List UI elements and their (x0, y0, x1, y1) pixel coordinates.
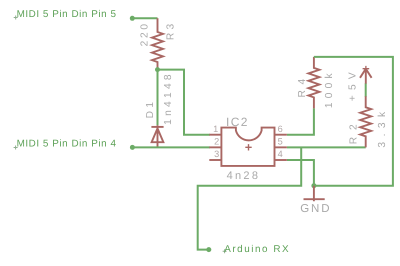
IC2 pin 2 stub (209, 146, 221, 148)
svg-text:4n28: 4n28 (227, 170, 261, 182)
node MIDI pin 4 (junction dot) (130, 145, 135, 150)
svg-text:D1: D1 (145, 99, 156, 119)
svg-text:100k: 100k (324, 69, 335, 108)
IC2 pin 5 stub (275, 146, 287, 148)
origin cross for label Pin 4 (14, 146, 18, 150)
svg-text:MIDI 5 Pin Din Pin 5: MIDI 5 Pin Din Pin 5 (17, 9, 117, 20)
origin cross for label Pin 5 (14, 16, 18, 20)
wire MIDI pin 4 to IC pin 2 (132, 146, 210, 148)
wire +5V to R2 top (365, 83, 367, 97)
IC2 pin 3 stub (209, 159, 221, 161)
wire top rail R4 to right rail down to GND run (314, 57, 393, 186)
IC2 pin 4 stub (275, 159, 287, 161)
svg-text:R3: R3 (166, 20, 177, 40)
svg-text:IC2: IC2 (226, 115, 249, 129)
svg-text:220: 220 (139, 21, 150, 46)
supply symbol +5V arrow (360, 69, 372, 84)
svg-text:MIDI 5 Pin Din Pin 4: MIDI 5 Pin Din Pin 4 (17, 138, 117, 149)
svg-text:3: 3 (214, 149, 219, 159)
svg-text:6: 6 (278, 124, 283, 134)
resistor R4 (308, 57, 319, 109)
node MIDI pin 5 (junction dot) (130, 16, 135, 21)
IC2 pin 1 stub (209, 134, 221, 136)
node junction R3 / D1 / wire to IC pin 1 (155, 67, 160, 72)
svg-text:R2: R2 (348, 118, 359, 145)
wire IC pin 4 to GND node (287, 160, 314, 186)
IC2 optocoupler 4n28 body (221, 128, 274, 166)
svg-text:4: 4 (278, 149, 283, 159)
origin cross for label Arduino RX (223, 249, 227, 253)
svg-text:1n4148: 1n4148 (163, 71, 174, 125)
node GND junction dot (311, 183, 316, 188)
resistor R2 (360, 96, 371, 147)
wire IC pin 5 to R2 bottom (287, 146, 366, 148)
wire MIDI pin 5 to R3 top (132, 17, 157, 19)
svg-text:2: 2 (214, 136, 219, 146)
svg-text:GND: GND (300, 203, 331, 215)
IC2 origin cross (245, 144, 251, 150)
origin cross +5V (363, 66, 370, 72)
svg-text:R4: R4 (297, 73, 308, 97)
wire junction down to D1 (157, 70, 159, 126)
diode D1 (151, 125, 163, 147)
svg-text:Arduino RX: Arduino RX (224, 244, 290, 255)
wire RX: pin5 net down and across to Arduino RX (198, 147, 302, 249)
ground symbol GND (304, 186, 325, 202)
node Arduino RX (junction dot) (206, 247, 211, 252)
wire junction to IC pin 1 (158, 70, 211, 135)
wire IC pin 6 to R4 bottom (287, 108, 314, 134)
resistor R3 (152, 18, 163, 69)
IC2 pin 6 stub (275, 134, 287, 136)
svg-text:+5V: +5V (347, 67, 358, 101)
svg-text:5: 5 (278, 136, 283, 146)
svg-text:3.3k: 3.3k (377, 106, 388, 147)
svg-text:1: 1 (213, 124, 218, 134)
